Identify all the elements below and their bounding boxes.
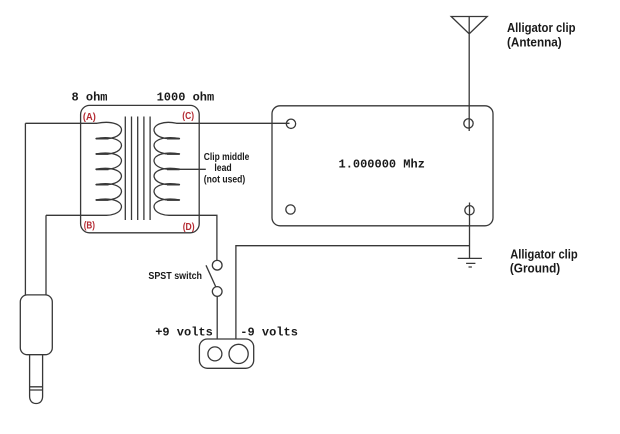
svg-text:(B): (B) <box>84 221 95 232</box>
svg-text:(C): (C) <box>182 111 194 122</box>
svg-text:(Ground): (Ground) <box>510 261 560 275</box>
svg-text:8 ohm: 8 ohm <box>72 91 108 105</box>
svg-text:(A): (A) <box>83 112 96 123</box>
svg-text:Alligator clip: Alligator clip <box>507 21 576 35</box>
svg-text:(Antenna): (Antenna) <box>507 35 562 49</box>
svg-text:SPST switch: SPST switch <box>148 271 202 282</box>
svg-text:1.000000 Mhz: 1.000000 Mhz <box>339 158 425 172</box>
svg-text:Clip middle: Clip middle <box>204 152 250 163</box>
svg-text:1000 ohm: 1000 ohm <box>157 91 215 105</box>
svg-text:+9 volts: +9 volts <box>155 326 213 340</box>
svg-text:(not used): (not used) <box>204 174 245 185</box>
svg-text:-9 volts: -9 volts <box>240 326 298 340</box>
svg-text:(D): (D) <box>183 222 195 233</box>
svg-text:Alligator clip: Alligator clip <box>510 247 578 261</box>
svg-text:lead: lead <box>214 163 231 174</box>
